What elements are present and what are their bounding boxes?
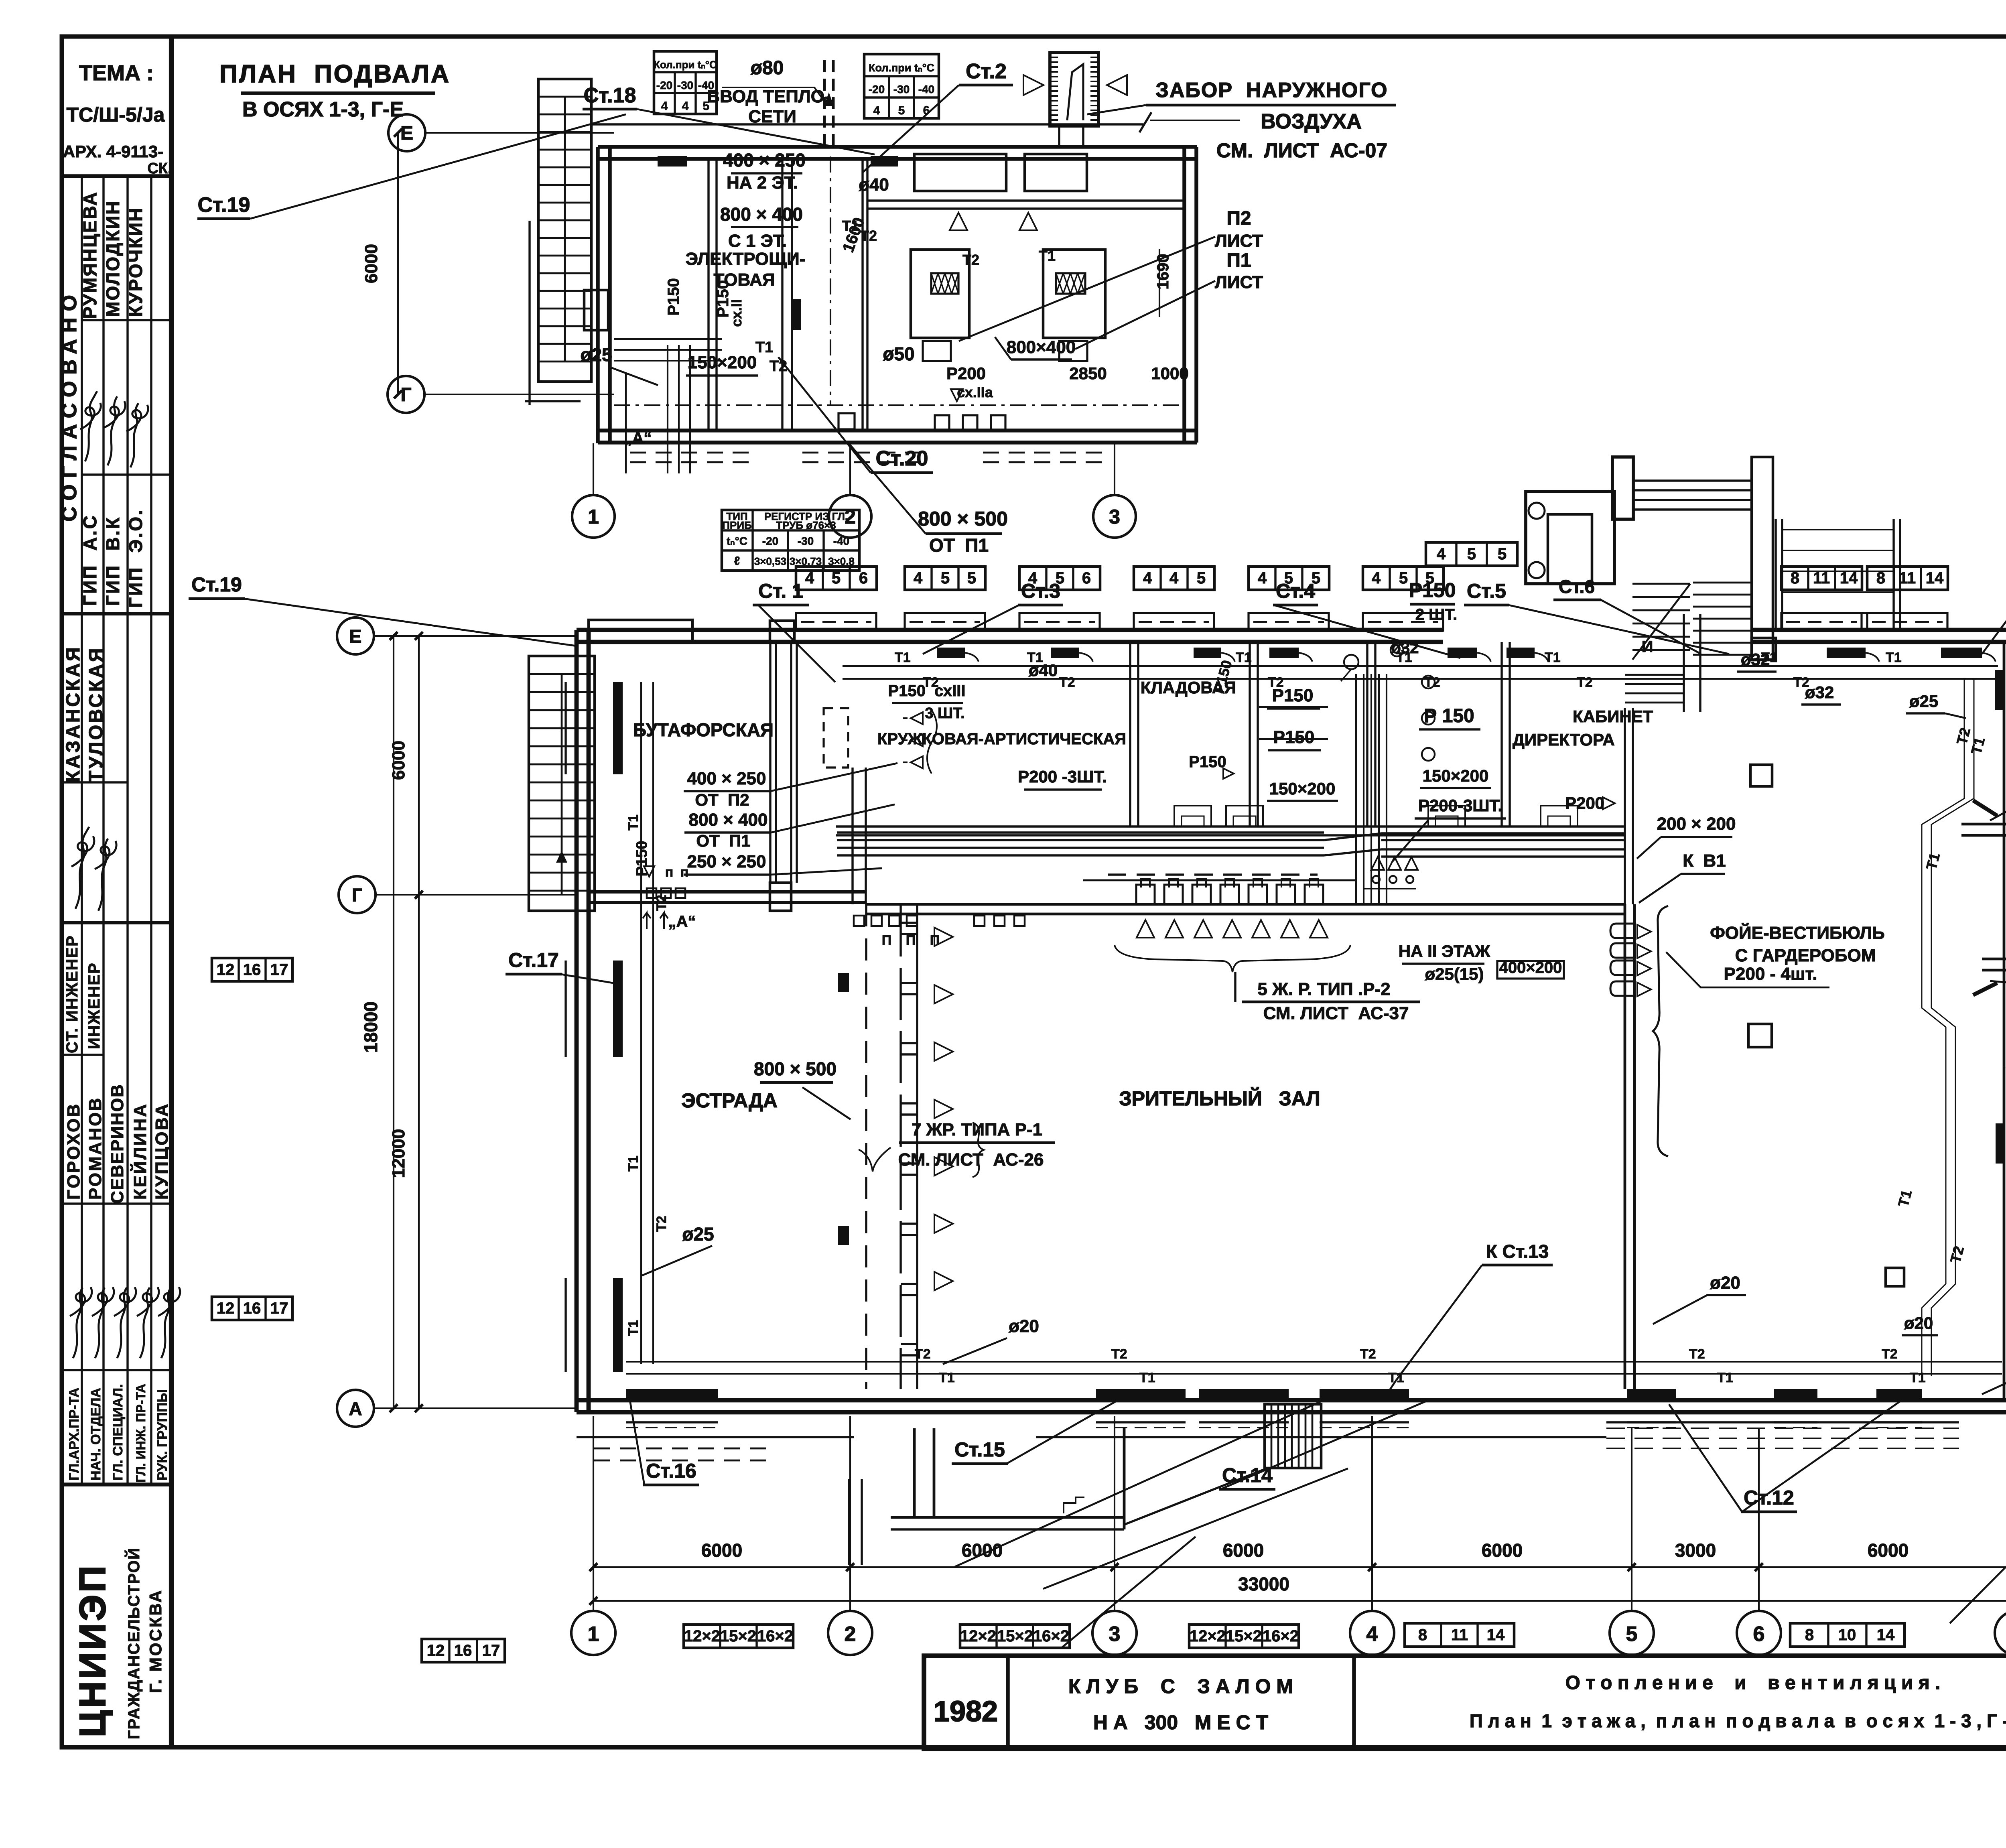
svg-text:Т2: Т2 (654, 895, 669, 911)
svg-text:Ст.19: Ст.19 (191, 573, 242, 596)
svg-text:АРХ. 4-9113-: АРХ. 4-9113- (63, 142, 164, 161)
dashed line over П row (1108, 873, 1318, 875)
svg-text:ЗРИТЕЛЬНЫЙ ЗАЛ: ЗРИТЕЛЬНЫЙ ЗАЛ (1119, 1087, 1320, 1110)
svg-text:2850: 2850 (1069, 364, 1107, 383)
basement trunk line top (591, 123, 1143, 125)
svg-text:ø25: ø25 (1909, 692, 1938, 711)
svg-text:ø20: ø20 (1710, 1273, 1740, 1293)
title block outline (924, 1656, 2006, 1749)
axis row Г left (339, 876, 376, 913)
svg-text:ТЕМА :: ТЕМА : (79, 61, 154, 85)
basement axis circle 3 (1093, 495, 1136, 538)
basement table ТИП ПРИБ (722, 510, 859, 571)
svg-text:ОТ П1: ОТ П1 (696, 831, 750, 850)
svg-text:Т2: Т2 (1111, 1346, 1127, 1362)
svg-text:17: 17 (482, 1642, 500, 1659)
svg-text:17: 17 (270, 961, 288, 979)
svg-text:ГИП В.К: ГИП В.К (102, 516, 123, 606)
svg-text:4: 4 (661, 100, 668, 113)
svg-text:СОГЛАСОВАНО: СОГЛАСОВАНО (58, 288, 81, 522)
svg-text:4: 4 (1258, 569, 1267, 587)
south porch center walls (848, 1479, 850, 1565)
svg-text:-40: -40 (698, 79, 714, 91)
south window sills (626, 1421, 718, 1423)
svg-text:12: 12 (217, 1300, 235, 1317)
svg-text:СТ. ИНЖЕНЕР: СТ. ИНЖЕНЕР (63, 935, 81, 1053)
svg-text:-20: -20 (762, 535, 778, 547)
pipe west vertical (640, 682, 642, 1364)
svg-text:ОТ П1: ОТ П1 (929, 535, 989, 556)
corridor vent grilles (854, 916, 864, 926)
ne stair flight right (1693, 582, 1752, 584)
main west outside stair hatch (529, 656, 595, 911)
basement air unit P2 (911, 250, 969, 338)
riser grille triangles (1371, 857, 1384, 870)
signatures scribbles upper (80, 391, 148, 467)
interior stair nw of foyer (1625, 674, 1684, 676)
basement small port rect bottom (839, 413, 855, 429)
svg-text:Ст.19: Ст.19 (198, 193, 250, 217)
svg-text:15×2: 15×2 (720, 1627, 756, 1645)
svg-text:Р200: Р200 (1565, 794, 1604, 812)
svg-text:В ОСЯХ 1-3, Г-Е: В ОСЯХ 1-3, Г-Е (242, 98, 404, 121)
svg-text:4: 4 (1169, 569, 1179, 587)
svg-text:11: 11 (1813, 569, 1830, 587)
basement dash-dot duct axis (614, 404, 1184, 406)
basement radiator north-west (658, 156, 687, 167)
svg-text:Т1: Т1 (1236, 650, 1252, 665)
axis stubs to bottom circles (593, 1416, 594, 1611)
ne porch walls (1526, 491, 1614, 584)
svg-text:-40: -40 (918, 83, 934, 95)
svg-text:ЛИСТ: ЛИСТ (1215, 231, 1263, 251)
svg-text:Р200-3ШТ.: Р200-3ШТ. (1418, 796, 1502, 815)
auditorium west panel wall (899, 904, 901, 1389)
corridor supply duct lower (837, 847, 1324, 849)
svg-text:П1: П1 (1226, 250, 1251, 271)
svg-text:ЭЛЕКТРОЩИ-: ЭЛЕКТРОЩИ- (686, 249, 806, 269)
svg-text:Т1: Т1 (895, 650, 911, 665)
svg-text:СМ. ЛИСТ АС-07: СМ. ЛИСТ АС-07 (1216, 139, 1387, 162)
svg-text:Т2: Т2 (962, 252, 979, 268)
svg-text:Р150: Р150 (665, 278, 682, 315)
svg-text:16×2: 16×2 (1263, 1627, 1299, 1645)
svg-text:6000: 6000 (701, 1540, 742, 1561)
basement exit A west (584, 290, 608, 330)
svg-text:6: 6 (859, 569, 868, 587)
svg-text:Т1: Т1 (755, 339, 773, 356)
pipe T1 north (843, 665, 1998, 667)
rooms riser bundle (1355, 674, 1357, 904)
svg-text:Т1: Т1 (626, 1320, 641, 1336)
svg-text:Ст. 1: Ст. 1 (758, 580, 803, 602)
entrance steps dashed east (1606, 1428, 1959, 1429)
svg-text:16×2: 16×2 (1033, 1627, 1069, 1645)
svg-text:400 × 250: 400 × 250 (723, 150, 806, 171)
room floor fixtures (1174, 806, 1211, 827)
svg-text:5: 5 (1467, 545, 1476, 563)
basement west outside stair hatch (528, 221, 530, 405)
svg-text:4: 4 (873, 104, 880, 117)
svg-text:8: 8 (1876, 569, 1885, 587)
basement dim 6000 left (397, 133, 399, 394)
pipe T2 north (843, 678, 1998, 680)
svg-text:12000: 12000 (389, 1129, 408, 1178)
long leader lines bottom (955, 1398, 1328, 1567)
svg-text:ø20: ø20 (1009, 1316, 1039, 1336)
svg-text:4: 4 (1143, 569, 1152, 587)
svg-text:„А“: „А“ (624, 429, 652, 447)
svg-text:Т1: Т1 (1139, 1370, 1155, 1385)
svg-text:Т1: Т1 (1039, 248, 1056, 264)
svg-text:Ст.16: Ст.16 (646, 1460, 696, 1482)
svg-text:Г: Г (352, 885, 362, 906)
svg-text:1690: 1690 (1154, 254, 1172, 290)
svg-text:Т2: Т2 (1882, 1346, 1898, 1362)
svg-text:5: 5 (1197, 569, 1206, 587)
svg-text:ГИП Э.О.: ГИП Э.О. (125, 508, 146, 608)
basement radiator north-center (871, 156, 898, 167)
main plan west outer wall (575, 630, 579, 1412)
svg-text:Т1: Т1 (1886, 650, 1902, 665)
room partition walls (1129, 642, 1131, 827)
foyer columns (1750, 765, 1772, 786)
svg-text:Р150: Р150 (1273, 727, 1315, 747)
svg-text:П2: П2 (1226, 208, 1251, 229)
basement radiator vertical (792, 299, 801, 330)
svg-text:15×2: 15×2 (997, 1627, 1033, 1645)
basement inner wall electro room (707, 159, 709, 431)
wardrobe brace (1653, 906, 1668, 1156)
svg-text:ЭСТРАДА: ЭСТРАДА (681, 1089, 778, 1112)
svg-text:Т1: Т1 (939, 1370, 955, 1385)
svg-text:Г. МОСКВА: Г. МОСКВА (146, 1589, 165, 1693)
auditorium top triangles (1137, 920, 1154, 938)
svg-text:11: 11 (1899, 569, 1916, 587)
svg-text:П: П (906, 933, 916, 948)
basement table Кол.при left (654, 51, 717, 114)
svg-text:4: 4 (1437, 545, 1446, 563)
left column vertical grid (81, 176, 83, 1484)
svg-text:сх.II: сх.II (728, 299, 745, 327)
svg-text:16: 16 (243, 961, 261, 979)
svg-text:5: 5 (941, 569, 950, 587)
svg-text:РОМАНОВ: РОМАНОВ (85, 1097, 105, 1200)
ne porch landing lines (1633, 479, 1752, 481)
svg-text:3×0,53: 3×0,53 (754, 555, 786, 567)
svg-text:Т2: Т2 (915, 1346, 931, 1362)
left column horizontal separators (82, 319, 171, 321)
svg-text:150×200: 150×200 (688, 353, 757, 372)
north window sills (796, 613, 876, 631)
left dim line 18000 (393, 636, 394, 1408)
basement vent chamber shelf wall (867, 199, 1184, 201)
svg-text:ø25: ø25 (682, 1224, 714, 1245)
svg-text:СЕВЕРИНОВ: СЕВЕРИНОВ (108, 1084, 127, 1204)
svg-text:14: 14 (1877, 1626, 1895, 1644)
ne porch right pillar (1752, 457, 1773, 660)
svg-text:5: 5 (967, 569, 976, 587)
basement heat entry duct f80 (823, 60, 826, 147)
svg-text:Ст.4: Ст.4 (1276, 580, 1315, 602)
wc half walls (1259, 706, 1328, 708)
stair enclosure west wall (1624, 708, 1626, 904)
svg-text:Т1: Т1 (1717, 1370, 1733, 1385)
svg-text:8: 8 (1805, 1626, 1814, 1644)
svg-text:8: 8 (1418, 1626, 1427, 1644)
svg-text:400 × 250: 400 × 250 (687, 769, 766, 788)
bottom axis circles (571, 1611, 615, 1655)
svg-text:800 × 500: 800 × 500 (918, 508, 1008, 530)
svg-text:ГОРОХОВ: ГОРОХОВ (64, 1103, 83, 1200)
left column divider (169, 37, 174, 1747)
svg-text:Т2: Т2 (770, 358, 787, 375)
svg-text:3: 3 (1109, 506, 1120, 528)
7жр brace (973, 1123, 984, 1177)
svg-text:СК.: СК. (147, 160, 172, 177)
svg-text:Т2: Т2 (1689, 1346, 1705, 1362)
svg-text:16: 16 (243, 1300, 261, 1317)
svg-text:3: 3 (1109, 1623, 1121, 1646)
svg-text:К Л У Б С З А Л О М: К Л У Б С З А Л О М (1068, 1675, 1293, 1698)
svg-text:11: 11 (1451, 1626, 1468, 1644)
svg-text:Т1: Т1 (1027, 650, 1043, 665)
svg-text:2: 2 (845, 506, 856, 528)
svg-text:12: 12 (217, 961, 235, 979)
svg-text:7 ЖР. ТИПА Р-1: 7 ЖР. ТИПА Р-1 (912, 1120, 1042, 1139)
svg-text:Р150: Р150 (1409, 579, 1456, 601)
svg-text:2: 2 (845, 1623, 856, 1646)
wardrobe registers (1610, 924, 1634, 938)
small fan circles rooms (1391, 644, 1403, 656)
svg-text:Т1: Т1 (1545, 650, 1561, 665)
TEMA stamp box (62, 174, 171, 178)
basement fan box left (914, 154, 1006, 191)
stage door leaf marks (838, 973, 849, 992)
svg-text:С 1 ЭТ.: С 1 ЭТ. (728, 231, 787, 251)
stage front wall (589, 890, 866, 894)
auditorium east wall (1624, 904, 1626, 1389)
svg-text:800 × 500: 800 × 500 (754, 1058, 837, 1079)
svg-text:ø25: ø25 (580, 344, 612, 365)
svg-text:ПЛАН ПОДВАЛА: ПЛАН ПОДВАЛА (219, 60, 451, 88)
svg-text:КЕЙЛИНА: КЕЙЛИНА (130, 1103, 150, 1200)
svg-text:6000: 6000 (361, 244, 381, 283)
basement table Кол.при right (864, 54, 939, 118)
svg-text:3 ШТ.: 3 ШТ. (925, 705, 964, 722)
svg-text:ЗАБОР НАРУЖНОГО: ЗАБОР НАРУЖНОГО (1155, 79, 1388, 102)
svg-text:5: 5 (1498, 545, 1507, 563)
basement dim 1690 line (1159, 249, 1160, 317)
svg-text:ø50: ø50 (883, 343, 914, 364)
main plan east outer wall (2003, 642, 2006, 1400)
svg-text:Т1: Т1 (1396, 650, 1412, 665)
svg-text:Е: Е (400, 123, 413, 144)
svg-text:НАЧ. ОТДЕЛА: НАЧ. ОТДЕЛА (88, 1388, 104, 1480)
svg-text:Т2: Т2 (1059, 675, 1075, 690)
svg-text:КАБИНЕТ: КАБИНЕТ (1573, 707, 1653, 726)
svg-text:БУТАФОРСКАЯ: БУТАФОРСКАЯ (633, 719, 774, 740)
svg-text:5: 5 (832, 569, 841, 587)
intake flow triangles (1023, 75, 1044, 95)
svg-text:10: 10 (1838, 1626, 1856, 1644)
svg-text:НА II ЭТАЖ: НА II ЭТАЖ (1399, 942, 1491, 961)
svg-text:5: 5 (1399, 569, 1408, 587)
auditorium top П marks (1136, 885, 1155, 904)
svg-text:КУПЦОВА: КУПЦОВА (152, 1102, 172, 1200)
basement outer walls (598, 145, 1197, 149)
svg-text:-20: -20 (869, 83, 885, 95)
svg-text:ø40: ø40 (859, 175, 889, 195)
svg-text:ГЛ.АРХ.ПР-ТА: ГЛ.АРХ.ПР-ТА (67, 1388, 82, 1480)
svg-text:Ст.17: Ст.17 (508, 949, 559, 971)
south porch right link line (1124, 1469, 1265, 1525)
svg-text:4: 4 (805, 569, 814, 587)
signatures row lower (70, 1287, 180, 1358)
basement axis stub 2 (849, 443, 851, 494)
svg-text:С ГАРДЕРОБОМ: С ГАРДЕРОБОМ (1735, 946, 1876, 965)
svg-text:33000: 33000 (1238, 1574, 1289, 1594)
svg-text:ГЛ. ИНЖ. ПР-ТА: ГЛ. ИНЖ. ПР-ТА (134, 1384, 148, 1482)
svg-text:Т2: Т2 (1793, 675, 1809, 690)
axis row Е left (337, 617, 374, 654)
basement outside air intake shaft (1050, 53, 1098, 126)
svg-text:150×200: 150×200 (1269, 779, 1336, 798)
bottom dim line segments (593, 1566, 2006, 1568)
basement axis circle Е (388, 114, 425, 151)
svg-text:15×2: 15×2 (1226, 1627, 1262, 1645)
svg-text:А: А (349, 1398, 362, 1419)
svg-text:СМ. ЛИСТ АС-37: СМ. ЛИСТ АС-37 (1263, 1003, 1409, 1023)
svg-text:Ст.5: Ст.5 (1467, 580, 1506, 602)
svg-text:1000: 1000 (1151, 364, 1188, 383)
svg-text:Т2: Т2 (923, 675, 939, 690)
svg-text:4: 4 (1366, 1623, 1378, 1646)
svg-text:4: 4 (914, 569, 923, 587)
left dim line 6000-12000 (418, 636, 420, 1408)
rooms south wall / corridor (836, 825, 1625, 827)
svg-text:6: 6 (923, 104, 930, 117)
svg-text:4: 4 (1372, 569, 1381, 587)
svg-text:Кол.при tₙ°С: Кол.при tₙ°С (869, 62, 934, 74)
svg-text:ГЛ. СПЕЦИАЛ.: ГЛ. СПЕЦИАЛ. (110, 1384, 126, 1480)
svg-text:800×400: 800×400 (1007, 337, 1076, 357)
svg-text:К В1: К В1 (1683, 851, 1726, 871)
svg-text:-30: -30 (798, 535, 814, 547)
svg-text:О т о п л е н и е и в е: О т о п л е н и е и в е н т и л я ц и я … (1565, 1672, 1941, 1694)
duct riser pair west of hall (851, 768, 853, 904)
svg-text:6000: 6000 (1482, 1540, 1523, 1561)
svg-text:200 × 200: 200 × 200 (1657, 814, 1736, 834)
pipe T1 south (626, 1373, 2002, 1375)
svg-text:800 × 400: 800 × 400 (720, 204, 803, 225)
svg-text:Т1: Т1 (1910, 1370, 1926, 1385)
svg-text:ПРИБ: ПРИБ (722, 519, 751, 531)
svg-text:-30: -30 (893, 83, 910, 95)
svg-text:РУК. ГРУППЫ: РУК. ГРУППЫ (155, 1389, 170, 1480)
svg-text:12×2: 12×2 (960, 1627, 996, 1645)
svg-text:800 × 400: 800 × 400 (689, 810, 768, 830)
basement pipes sw corner (614, 338, 722, 340)
basement vent chamber west wall (861, 159, 863, 431)
west wall radiators (613, 682, 623, 774)
basement south wall sill dashes (630, 452, 758, 454)
svg-text:3000: 3000 (1675, 1540, 1716, 1561)
svg-text:Т2: Т2 (1268, 675, 1284, 690)
tambour inner walls (1961, 823, 2006, 826)
svg-text:5 Ж. Р. ТИП .Р-2: 5 Ж. Р. ТИП .Р-2 (1257, 979, 1390, 999)
svg-text:12: 12 (427, 1642, 445, 1659)
svg-text:6000: 6000 (1223, 1540, 1264, 1561)
Кружковая west grille triangles (911, 712, 923, 724)
svg-text:п: п (665, 865, 674, 880)
svg-text:„А“: „А“ (668, 913, 696, 930)
svg-text:16×2: 16×2 (757, 1627, 793, 1645)
svg-text:ИНЖЕНЕР: ИНЖЕНЕР (85, 962, 103, 1049)
svg-text:6: 6 (1753, 1623, 1765, 1646)
svg-text:Ст.2: Ст.2 (966, 60, 1007, 83)
svg-text:6000: 6000 (389, 741, 408, 780)
svg-text:КУРОЧКИН: КУРОЧКИН (125, 207, 146, 317)
svg-text:ВВОД ТЕПЛО-: ВВОД ТЕПЛО- (707, 87, 830, 106)
stamp boxes bottom row (422, 1639, 505, 1662)
svg-text:ø80: ø80 (751, 57, 784, 79)
west window sills (564, 682, 566, 774)
svg-text:ВОЗДУХА: ВОЗДУХА (1261, 110, 1362, 133)
svg-text:Ст.6: Ст.6 (1559, 576, 1595, 597)
svg-text:-30: -30 (677, 79, 693, 91)
svg-text:КАЗАНСКАЯ: КАЗАНСКАЯ (63, 646, 84, 782)
stage grille boxes (647, 888, 656, 898)
svg-text:1: 1 (588, 506, 599, 528)
svg-text:ФОЙЕ-ВЕСТИБЮЛЬ: ФОЙЕ-ВЕСТИБЮЛЬ (1710, 922, 1885, 943)
basement axis circle 1 (572, 495, 615, 538)
svg-text:6000: 6000 (962, 1540, 1003, 1561)
svg-text:ТС/Ш-5/Jа: ТС/Ш-5/Jа (67, 104, 165, 126)
small fan circle near riser (1344, 655, 1358, 669)
svg-text:5: 5 (898, 104, 905, 117)
plinth line under south wall (577, 1436, 854, 1438)
basement axis stub 1 (593, 443, 594, 494)
nw window block Бутафорская (589, 620, 692, 642)
svg-text:8: 8 (1791, 569, 1799, 587)
svg-text:Т1: Т1 (626, 1156, 641, 1172)
svg-text:Е: Е (349, 626, 362, 647)
corridor supply duct upper (837, 831, 1324, 833)
svg-text:ТРУБ ø76×3: ТРУБ ø76×3 (776, 519, 836, 531)
svg-text:12×2: 12×2 (1190, 1627, 1226, 1645)
svg-text:Р200 - 4шт.: Р200 - 4шт. (1724, 964, 1817, 984)
signatures Казанская/Туловская (71, 827, 116, 911)
svg-text:2 ШТ.: 2 ШТ. (1415, 606, 1458, 623)
svg-text:Р200 -3ШТ.: Р200 -3ШТ. (1018, 767, 1107, 786)
auditorium west dashed wall (865, 904, 867, 1389)
svg-text:П: П (882, 933, 891, 948)
svg-text:Т1: Т1 (626, 814, 641, 831)
svg-text:1982: 1982 (934, 1696, 998, 1728)
svg-text:ЦНИИЭП: ЦНИИЭП (72, 1564, 113, 1737)
svg-text:Р200: Р200 (946, 364, 986, 383)
basement air unit P1 (1043, 250, 1105, 338)
north radiators (937, 648, 965, 658)
svg-text:К Ст.13: К Ст.13 (1486, 1241, 1549, 1262)
svg-text:Ст.20: Ст.20 (876, 447, 928, 470)
svg-text:ТУЛОВСКАЯ: ТУЛОВСКАЯ (85, 646, 107, 782)
main plan north outer wall (577, 628, 836, 632)
svg-text:16: 16 (454, 1642, 472, 1659)
stage wing walls (769, 642, 771, 883)
svg-text:6: 6 (1082, 569, 1091, 587)
